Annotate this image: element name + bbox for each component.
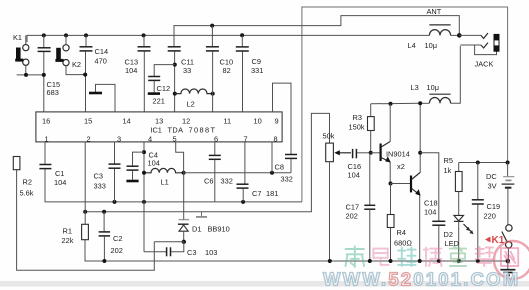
node C15 top junction [42,33,46,37]
node pot bottom junction [328,259,332,263]
node C19 bottom junction [476,259,480,263]
capacitor C13 [125,35,151,112]
capacitor C12 [148,65,175,106]
svg-text:R1: R1 [63,227,72,236]
svg-text:C6: C6 [204,177,213,186]
svg-text:7: 7 [244,135,248,144]
switch K1 second pole [502,225,512,261]
svg-text:BB910: BB910 [208,225,230,234]
svg-text:WWW.520101.COM: WWW.520101.COM [323,269,520,290]
svg-text:D1: D1 [192,225,201,234]
node L2 right junction [211,92,215,96]
svg-text:150k: 150k [349,123,365,132]
capacitor C19 [472,163,500,262]
svg-text:D2: D2 [444,230,453,239]
wire jack ring drop [451,46,461,103]
wire pin8 drop [271,142,273,173]
svg-text:15: 15 [84,117,92,126]
svg-text:12: 12 [182,117,190,126]
svg-text:103: 103 [205,248,217,257]
node Q2 collector top junction [418,101,422,105]
wire D1 anode to detour [154,241,184,243]
svg-text:C2: C2 [113,234,122,243]
svg-text:K1: K1 [13,33,22,42]
svg-text:R5: R5 [444,156,453,165]
svg-text:104: 104 [125,66,137,75]
svg-text:202: 202 [346,212,358,221]
svg-text:C17: C17 [346,203,360,212]
svg-text:5.6k: 5.6k [20,189,34,198]
node pin15 top junction [83,73,87,77]
border frame top and right [302,7,508,202]
node jack tip junction [457,33,462,38]
node K1 bottom junction [24,73,28,77]
svg-text:LED: LED [445,239,459,248]
svg-text:3: 3 [117,135,121,144]
svg-text:14: 14 [123,117,131,126]
svg-text:331: 331 [251,66,263,75]
node K2 top junction [64,33,68,37]
svg-text:104: 104 [148,159,160,168]
wire pin9 bridge to C8 [273,83,292,154]
node battery top junction [506,161,510,165]
capacitor C8 [275,155,298,184]
svg-text:ANT: ANT [427,7,442,16]
inductor L4 [408,25,460,50]
node pin4 C4 tap [142,150,146,154]
wire pin5 jog [176,142,184,173]
capacitor C10 [206,26,233,112]
node Q1 collector top junction [389,102,393,106]
transistor Q1 IN9014 [371,104,410,184]
wire L1 to C8 audio line [184,172,291,174]
svg-text:11: 11 [224,117,232,126]
wire tuning rail B [85,113,329,211]
svg-text:L3: L3 [411,83,419,92]
svg-text:333: 333 [94,182,106,191]
inductor L2 [175,89,213,109]
svg-text:DC: DC [486,172,497,181]
svg-text:10: 10 [254,117,262,126]
svg-text:33: 33 [183,66,191,75]
capacitor C11 [168,47,194,112]
node C12 tap junction [173,63,177,67]
resistor R4 [387,184,412,262]
resistor R5 [444,156,463,215]
wire ground rail A [45,169,302,202]
battery DC 3V [486,163,514,225]
node rail right end junction [506,259,511,264]
svg-text:332: 332 [281,175,293,184]
svg-text:C9: C9 [252,57,261,66]
wire VCO top [174,16,459,47]
svg-text:R3: R3 [353,113,362,122]
inductor L3 [411,83,451,103]
inductor L1 [144,168,184,186]
wire K1 feed [17,74,45,76]
ground on rail B [196,212,207,217]
svg-text:JACK: JACK [475,60,494,69]
capacitor C7 [237,142,279,202]
switch K2 [55,35,85,74]
transistor Q2 IN9014 [411,103,421,261]
wire collector rail [371,102,420,105]
svg-text:680Ω: 680Ω [394,239,412,248]
svg-text:C19: C19 [487,202,501,211]
svg-text:C3: C3 [94,172,103,181]
svg-text:IC1: IC1 [150,126,162,135]
svg-text:221: 221 [153,97,165,106]
node Q2 emitter bottom junction [418,259,422,263]
wire supply tap [459,162,508,164]
capacitor C3 103 [144,242,217,257]
svg-text:10μ: 10μ [425,41,437,50]
svg-text:x2: x2 [397,162,405,171]
svg-text:K1: K1 [492,235,505,246]
svg-text:IN9014: IN9014 [386,150,410,159]
svg-text:8: 8 [274,135,278,144]
svg-text:82: 82 [223,66,231,75]
wire bottom supply rail [85,240,508,261]
node C18 tap junction [418,151,422,155]
svg-text:7088T: 7088T [189,126,217,135]
node rail A pin3 junction [113,200,117,204]
svg-text:2: 2 [87,135,91,144]
svg-text:C3: C3 [187,248,196,257]
svg-text:R4: R4 [397,228,406,237]
capacitor C3 333 [94,142,121,202]
wire lower left detour rail [17,170,155,271]
node rail B pin2 junction [83,210,87,214]
svg-text:50k: 50k [323,132,335,141]
node pin8 junction [270,171,274,175]
svg-text:L2: L2 [187,100,195,109]
ground battery return [500,261,515,275]
svg-text:C14: C14 [95,47,109,56]
node D1 anode junction [182,240,186,244]
wire pin2 drop [84,142,86,212]
decorative watermark (not labelled as circuit) [0,235,529,290]
svg-text:C12: C12 [157,84,171,93]
svg-text:3V: 3V [488,182,497,191]
svg-text:202: 202 [111,246,123,255]
connector JACK [459,33,499,69]
node C17 bottom junction [368,259,372,263]
node C9 top junction [240,33,244,37]
svg-text:C7: C7 [252,189,261,198]
node base junction [369,151,373,155]
svg-text:13: 13 [155,117,163,126]
svg-text:22k: 22k [62,236,74,245]
svg-text:10μ: 10μ [427,83,439,92]
node rail A pin4 junction [142,200,146,204]
svg-text:9: 9 [275,117,279,126]
node C18 bottom junction [437,259,441,263]
svg-text:TDA: TDA [168,126,184,135]
capacitor C9 [236,35,264,112]
node R4 bottom junction [389,259,393,263]
resistor R2 [13,157,33,198]
capacitor C2 [99,212,123,261]
node C14 top junction [84,33,88,37]
svg-text:181: 181 [266,189,278,198]
svg-text:332: 332 [221,177,233,186]
switch K1 [13,33,29,75]
node rail A C7 junction [241,200,245,204]
svg-text:4: 4 [148,135,152,144]
capacitor C17 [346,153,376,261]
node D2 bottom junction [457,259,461,263]
svg-text:C8: C8 [275,163,284,172]
node L2 left junction [173,92,177,96]
svg-text:16: 16 [42,117,50,126]
node C13 top junction [142,33,146,37]
node L1 right junction [182,171,186,175]
node C10 top junction [210,24,214,28]
node C15 bottom junction [42,73,46,77]
op-amp U1 IC1 TDA7088T body [36,112,282,142]
svg-text:1k: 1k [444,166,452,175]
capacitor C18 [420,153,445,261]
node rail B C2 junction [102,210,106,214]
svg-text:220: 220 [484,212,496,221]
svg-text:R2: R2 [23,178,32,187]
wire top supply rail [27,35,429,42]
wire pin4 column [143,142,145,252]
node Q1 emitter junction [389,182,393,186]
node L1 left junction [142,171,146,175]
ground pin14 [89,84,115,112]
capacitor C1 [39,142,66,187]
svg-text:L4: L4 [408,41,416,50]
potentiometer 50k [323,132,352,262]
resistor R3 [349,104,375,153]
svg-text:C18: C18 [424,199,438,208]
svg-text:C1: C1 [55,169,64,178]
svg-text:K2: K2 [72,60,81,69]
diode D1 BB910 varactor [178,173,230,242]
svg-text:104: 104 [54,178,66,187]
resistor R1 [62,212,89,245]
svg-text:104: 104 [424,208,436,217]
svg-text:104: 104 [348,171,360,180]
capacitor C16 [348,149,371,180]
wire Q1 emitter to Q2 base [391,183,411,185]
capacitor C14 [80,35,109,112]
capacitor C6 [204,142,233,202]
svg-text:683: 683 [47,88,59,97]
svg-text:L1: L1 [161,178,169,187]
capacitor C4 with ground [126,151,159,182]
node C19 top junction [476,161,480,165]
capacitor C15 [38,35,60,112]
svg-text:470: 470 [95,57,107,66]
diode D2 LED [444,215,474,261]
node C2 bottom junction [102,259,106,263]
